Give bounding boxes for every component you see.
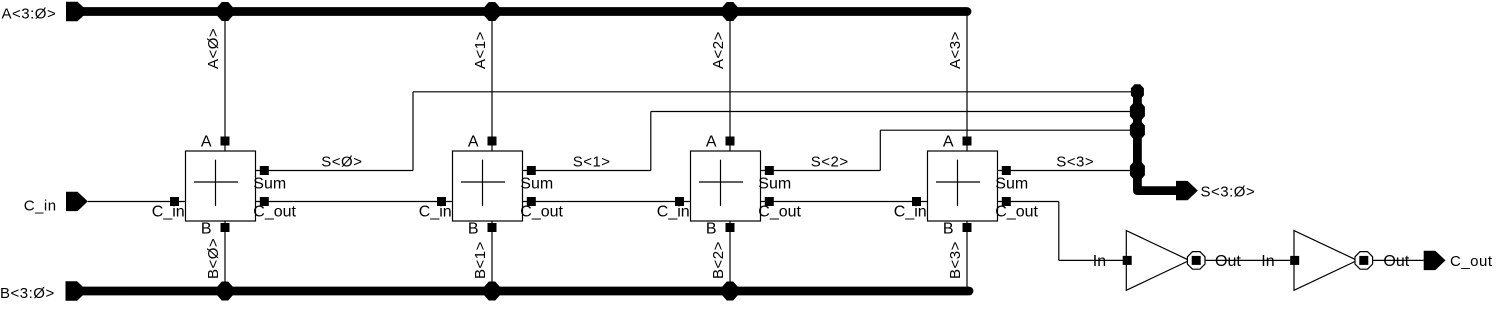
pin B of FA3 (963, 223, 972, 232)
svg-text:C_in: C_in (657, 204, 690, 221)
bus input marker A<3:0> (66, 2, 88, 21)
svg-text:B<3>: B<3> (947, 241, 964, 279)
wire B<2> tap (729, 221, 731, 287)
output marker C_out (1424, 251, 1446, 270)
wire C_out FA1 to C_in FA2 (523, 201, 691, 203)
svg-text:S<Ø>: S<Ø> (321, 154, 362, 171)
pin In of X1 (1123, 256, 1132, 265)
bus pin junction A tap 2 (723, 2, 738, 21)
pin C_out of FA1 (527, 197, 536, 206)
bus pin junction B tap 0 (218, 282, 233, 301)
bus S<3:0> vertical (1137, 92, 1176, 191)
svg-text:C_in: C_in (152, 204, 185, 221)
wire C_out FA3 to inverter chain (998, 201, 1059, 203)
bus pin junction S<0> (1131, 84, 1144, 99)
wire X1 Out to X2 In (1205, 259, 1294, 261)
svg-text:B: B (468, 221, 479, 238)
svg-text:C_out: C_out (253, 204, 296, 221)
wire B<1> tap (491, 221, 493, 287)
pin C_out of FA3 (1002, 197, 1011, 206)
svg-text:Sum: Sum (520, 176, 553, 193)
wire X2 Out to C_out marker (1373, 259, 1424, 261)
svg-text:A<3>: A<3> (947, 31, 964, 69)
wire A<1> tap (491, 15, 493, 151)
wire S<3> from Sum FA3 (998, 170, 1138, 172)
pin Sum of FA0 (260, 166, 269, 175)
svg-text:Out: Out (1215, 253, 1241, 270)
wire S<2> from Sum FA2 (761, 170, 881, 172)
bus output marker S<3:0> (1176, 181, 1198, 200)
svg-text:In: In (1093, 253, 1106, 270)
svg-text:A<3:Ø>: A<3:Ø> (2, 5, 57, 22)
bus A<3:0> (80, 7, 967, 16)
svg-text:C_out: C_out (1450, 253, 1493, 270)
wire C_out FA2 to C_in FA3 (761, 201, 928, 203)
adder FA0 body (186, 151, 256, 221)
pin B of FA0 (221, 223, 230, 232)
svg-text:C_in: C_in (24, 198, 57, 215)
svg-text:B: B (706, 221, 717, 238)
adder FA2 body (691, 151, 761, 221)
output bubble of X2 (1355, 252, 1373, 270)
svg-text:C_in: C_in (419, 204, 452, 221)
wire A<2> tap (729, 15, 731, 151)
svg-text:B: B (201, 221, 212, 238)
pin C_in of FA2 (675, 197, 684, 206)
buffer X1 triangle (1126, 231, 1189, 291)
bus pin junction B tap 2 (723, 282, 738, 301)
pin A of FA3 (963, 137, 972, 146)
pin B of FA1 (488, 223, 497, 232)
pin C_in of FA3 (912, 197, 921, 206)
svg-text:Sum: Sum (253, 176, 286, 193)
wire C_out FA0 to C_in FA1 (256, 201, 453, 203)
pin Sum of FA2 (765, 166, 774, 175)
wire C_in to FA0 (88, 201, 186, 203)
svg-text:A<2>: A<2> (710, 31, 727, 69)
wire B<0> tap (224, 221, 226, 287)
pin A of FA0 (221, 137, 230, 146)
svg-text:B<1>: B<1> (472, 241, 489, 279)
pin Out of X1 (1192, 256, 1201, 265)
bus pin junction A tap 0 (218, 2, 233, 21)
buffer X2 triangle (1294, 231, 1357, 291)
wire A<0> tap (224, 15, 226, 151)
pin B of FA2 (726, 223, 735, 232)
svg-text:A: A (468, 134, 479, 151)
svg-text:A: A (706, 134, 717, 151)
svg-text:B<Ø>: B<Ø> (205, 238, 222, 279)
svg-text:S<1>: S<1> (573, 154, 611, 171)
svg-text:Out: Out (1383, 253, 1409, 270)
wire A<3> tap (966, 15, 968, 151)
svg-text:B: B (943, 221, 954, 238)
svg-text:S<2>: S<2> (811, 154, 849, 171)
pin A of FA1 (488, 137, 497, 146)
wire B<3> tap (966, 221, 968, 287)
svg-text:S<3>: S<3> (1056, 154, 1094, 171)
input marker C_in (66, 192, 88, 211)
svg-text:A: A (943, 134, 954, 151)
svg-text:A<1>: A<1> (472, 31, 489, 69)
bus pin junction A tap 1 (485, 2, 500, 21)
svg-text:In: In (1261, 253, 1274, 270)
svg-text:A: A (201, 134, 212, 151)
pin C_in of FA1 (437, 197, 446, 206)
svg-text:Sum: Sum (995, 176, 1028, 193)
pin Sum of FA3 (1002, 166, 1011, 175)
bus pin junction B tap 1 (485, 282, 500, 301)
pin Out of X2 (1359, 256, 1368, 265)
svg-text:C_out: C_out (758, 204, 801, 221)
bus B<3:0> (80, 287, 969, 296)
svg-text:C_out: C_out (520, 204, 563, 221)
pin C_out of FA0 (260, 197, 269, 206)
pin C_out of FA2 (765, 197, 774, 206)
pin Sum of FA1 (527, 166, 536, 175)
svg-text:S<3:Ø>: S<3:Ø> (1201, 184, 1256, 201)
wire S<1> from Sum FA1 (523, 170, 651, 172)
svg-text:B<3:Ø>: B<3:Ø> (0, 285, 55, 302)
svg-text:C_in: C_in (894, 204, 927, 221)
adder FA1 body (453, 151, 523, 221)
pin In of X2 (1290, 256, 1299, 265)
pin C_in of FA0 (170, 197, 179, 206)
svg-text:B<2>: B<2> (710, 241, 727, 279)
svg-text:Sum: Sum (758, 176, 791, 193)
wire S<0> from Sum FA0 (256, 170, 414, 172)
svg-text:C_out: C_out (995, 204, 1038, 221)
bus pin junction S<3> (1130, 161, 1145, 180)
bus pin junction S<1> (1130, 102, 1145, 121)
pin A of FA2 (726, 137, 735, 146)
output bubble of X1 (1187, 252, 1205, 270)
bus input marker B<3:0> (66, 281, 88, 300)
svg-text:A<Ø>: A<Ø> (205, 28, 222, 69)
bus pin junction S<2> (1130, 121, 1145, 140)
adder FA3 body (928, 151, 998, 221)
